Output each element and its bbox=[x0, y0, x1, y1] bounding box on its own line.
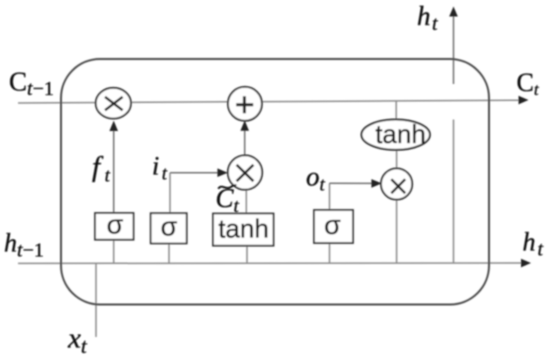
wire: x_t input vertical bbox=[95, 263, 97, 337]
arrowhead C_t output bbox=[519, 96, 529, 105]
wire: C line (cell state, horizontal top) bbox=[18, 100, 521, 103]
svg-text:Ct−1: Ct−1 bbox=[9, 67, 54, 101]
sigma box 3 (output gate sigma) bbox=[314, 210, 353, 243]
wire: o_t elbow horizontal bbox=[330, 182, 374, 184]
multiply node X2 (input gate) bbox=[228, 155, 262, 189]
svg-text:Ct: Ct bbox=[517, 68, 540, 99]
sigma box 1 (forget gate sigma) bbox=[95, 210, 134, 240]
svg-text:σ: σ bbox=[324, 210, 341, 240]
svg-text:ht: ht bbox=[417, 1, 438, 35]
svg-text:ft: ft bbox=[92, 151, 111, 187]
wire: f_t vertical (sigma1 to multiply) bbox=[113, 129, 115, 213]
cell body rounded rectangle bbox=[61, 59, 489, 305]
wire: sigma1 down to h line bbox=[113, 240, 115, 263]
wire: h_t up line lower segment bbox=[453, 120, 455, 264]
wire: o_t elbow vertical bbox=[329, 183, 331, 210]
svg-text:σ: σ bbox=[161, 212, 178, 242]
arrowhead into multiply3 bbox=[371, 179, 381, 188]
arrowhead h_t right output bbox=[521, 259, 531, 268]
wire: multiply2 up to add bbox=[244, 129, 246, 156]
wire: C line down to tanh ellipse bbox=[395, 101, 397, 120]
svg-text:ot: ot bbox=[306, 162, 326, 196]
wire: h_t up line upper segment bbox=[453, 15, 455, 85]
svg-text:xt: xt bbox=[67, 323, 88, 357]
wire: sigma2 down to h line bbox=[168, 243, 170, 263]
arrowhead into add bbox=[240, 120, 249, 130]
multiply node X1 (forget gate) bbox=[96, 88, 131, 119]
svg-text:ht: ht bbox=[523, 228, 544, 261]
add node + (cell state update) bbox=[228, 87, 262, 121]
arrowhead h_t top output bbox=[449, 7, 458, 17]
arrowhead into multiply1 bbox=[109, 121, 118, 131]
svg-text:it: it bbox=[152, 152, 168, 185]
tanh ellipse (output activation) bbox=[362, 119, 430, 150]
svg-text:tanh: tanh bbox=[375, 119, 426, 149]
wire: i_t elbow vertical bbox=[169, 173, 171, 214]
svg-text:ht−1: ht−1 bbox=[4, 229, 44, 262]
wire: sigma3 down to h line bbox=[329, 242, 331, 263]
wire: multiply3 down to h line bbox=[396, 198, 398, 263]
wire: i_t elbow horizontal bbox=[170, 172, 219, 174]
wire: tanh box down to h line bbox=[246, 246, 248, 264]
wire: h line (hidden state, horizontal bottom) bbox=[18, 262, 522, 264]
tanh box (candidate activation) bbox=[213, 214, 274, 246]
sigma box 2 (input gate sigma) bbox=[151, 212, 187, 244]
wire: tanh ellipse down to multiply3 bbox=[396, 150, 398, 170]
arrowhead into multiply2 bbox=[217, 168, 227, 177]
multiply node X3 (output gate) bbox=[381, 168, 412, 199]
svg-text:σ: σ bbox=[107, 210, 124, 240]
wire: tanh box up to multiply2 bbox=[245, 190, 247, 214]
label C~_t (candidate) bbox=[216, 183, 240, 217]
svg-text:tanh: tanh bbox=[218, 214, 269, 244]
